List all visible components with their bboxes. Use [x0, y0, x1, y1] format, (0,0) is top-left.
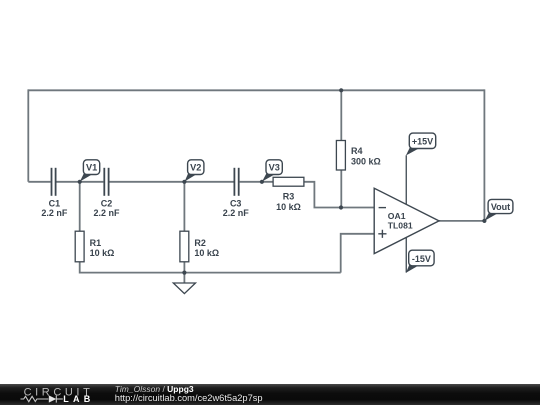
svg-text:R4: R4 [351, 146, 363, 156]
wire R2 bottom stub [183, 262, 185, 273]
node V2 dot [182, 180, 186, 184]
wire left stub to C1 [28, 181, 50, 183]
node V1 dot [78, 180, 82, 184]
svg-text:LAB: LAB [63, 394, 94, 404]
resistor R4 [336, 141, 345, 171]
wire left vertical [27, 89, 29, 181]
op-amp V- pin [405, 237, 407, 272]
resistor R3 [273, 177, 304, 186]
svg-text:V3: V3 [269, 163, 280, 173]
junction R4 top [339, 88, 343, 92]
wire R4 top stub [340, 90, 342, 141]
svg-text:C2: C2 [101, 198, 113, 208]
op-amp OA1 [374, 188, 439, 253]
capacitor C3 [234, 168, 238, 196]
svg-text:R2: R2 [194, 238, 206, 248]
ground [173, 283, 195, 294]
label C2 [93, 198, 120, 218]
flag Vout [485, 199, 513, 220]
wire top horizontal [28, 89, 484, 91]
wire R3 right jog down to minus input [304, 182, 374, 208]
svg-text:2.2 nF: 2.2 nF [93, 208, 120, 218]
wire op-amp output to right rail [439, 220, 484, 222]
wire node V2 to C3 [184, 181, 233, 183]
resistor R2 [180, 231, 189, 262]
svg-text:300 kΩ: 300 kΩ [351, 156, 381, 166]
wire C2 to node V2 [110, 181, 185, 183]
wire C3 to node V3 to R3 [240, 181, 274, 183]
svg-text:C3: C3 [230, 198, 242, 208]
wire V2 down to R2 [183, 182, 185, 231]
circuitlab logo [0, 384, 100, 405]
footer credit text [115, 385, 263, 402]
node V3 dot [260, 180, 264, 184]
label R4 [351, 146, 381, 167]
flag -15V [406, 250, 434, 273]
svg-text:10 kΩ: 10 kΩ [276, 202, 301, 212]
label R1 [90, 238, 115, 258]
label R2 [194, 238, 219, 258]
footer bar [0, 384, 540, 405]
wire V1 down to R1 [79, 182, 81, 231]
flag V1 [80, 160, 100, 182]
wire node V1 to C2 [80, 181, 104, 183]
svg-text:2.2 nF: 2.2 nF [223, 208, 250, 218]
svg-text:R1: R1 [90, 238, 102, 248]
svg-text:10 kΩ: 10 kΩ [194, 248, 219, 258]
label C1 [41, 198, 68, 218]
svg-text:-15V: -15V [412, 254, 431, 264]
label R3 [276, 191, 301, 212]
op-amp V+ pin [405, 155, 407, 204]
junction ground rail [182, 271, 186, 275]
svg-text:10 kΩ: 10 kΩ [90, 248, 115, 258]
svg-text:R3: R3 [283, 191, 295, 201]
svg-text:+15V: +15V [412, 137, 433, 147]
svg-text:V2: V2 [190, 163, 201, 173]
svg-text:2.2 nF: 2.2 nF [41, 208, 68, 218]
flag V3 [262, 160, 282, 182]
wire right vertical [483, 89, 485, 221]
wire R1 bottom to ground rail [80, 262, 341, 273]
svg-text:OA1: OA1 [388, 211, 406, 221]
flag V2 [185, 160, 204, 182]
svg-text:V1: V1 [86, 163, 97, 173]
wire plus input riser [341, 234, 375, 273]
capacitor C1 [52, 168, 56, 196]
wire ground stem [183, 273, 185, 283]
resistor R1 [75, 231, 84, 262]
wire R4 bottom stub [340, 170, 342, 208]
svg-text:C1: C1 [49, 198, 61, 208]
capacitor C2 [104, 168, 108, 196]
svg-text:Vout: Vout [491, 202, 510, 212]
svg-text:TL081: TL081 [388, 221, 413, 231]
wire C1 to node V1 [56, 181, 79, 183]
label C3 [223, 198, 250, 218]
node Vout dot [482, 219, 486, 223]
node junction dots [78, 88, 487, 275]
junction R4 bottom [339, 205, 343, 209]
flag +15V [406, 133, 436, 155]
